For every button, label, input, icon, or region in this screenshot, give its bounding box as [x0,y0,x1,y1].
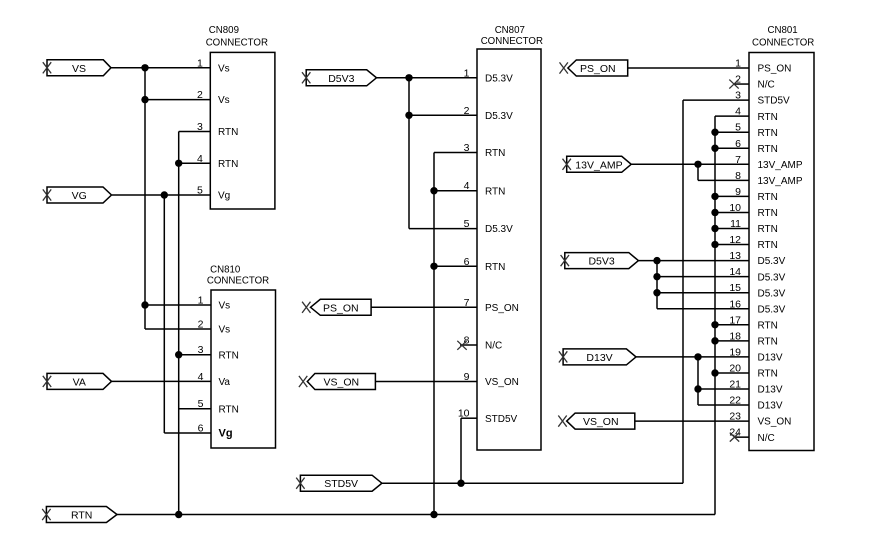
svg-text:CONNECTOR: CONNECTOR [752,38,814,49]
CN807 pin 8 (N/C) [464,335,503,352]
wire CN807 pin 10 stub [461,417,477,419]
connector CN807 box [477,25,543,450]
CN809 pin 1 (Vs) [197,57,230,74]
junction D5V3 bus at CN807 pin 1 [405,74,412,81]
net flag D5V3 left [302,70,377,86]
junction RTN bus at RTN rail [175,511,182,518]
CN807 pin 6 (RTN) [464,256,506,273]
junction RTN bus at CN801 pin 11 [711,225,718,232]
wire VS_ON to CN807 pin 9 [375,381,477,383]
CN807 pin 4 (RTN) [464,180,506,197]
wire D5V3 bus vertical right [656,261,658,309]
svg-text:PS_ON: PS_ON [485,303,519,314]
junction D13V bus at CN801 pin 21 [694,385,701,392]
CN801 pin 20 (RTN) [729,362,778,379]
svg-text:D13V: D13V [586,352,612,364]
svg-text:Vs: Vs [218,63,230,74]
CN801 pin 15 (D5.3V) [729,282,785,299]
junction VG bus tap [161,191,168,198]
wire D13V bus to CN801 pin 21 [698,388,749,390]
wire 13V_AMP to CN801 pin 7 [631,163,749,165]
wire VA to CN810 pin 4 [110,380,211,382]
junction RTN bus at CN801 pin 9 [711,193,718,200]
svg-text:RTN: RTN [758,192,778,203]
wire RTN bus to CN801 pin 17 [715,324,749,326]
wire STD5V rail horizontal [382,482,683,484]
svg-text:RTN: RTN [758,208,778,219]
svg-text:CONNECTOR: CONNECTOR [207,276,269,287]
svg-text:STD5V: STD5V [485,414,518,425]
svg-text:STD5V: STD5V [758,96,791,107]
wire RTN bus to CN809 pin 4 [179,162,211,164]
svg-text:D5.3V: D5.3V [758,272,786,283]
svg-text:D5.3V: D5.3V [758,288,786,299]
net flag RTN [42,507,117,523]
svg-text:RTN: RTN [485,148,505,159]
CN801 pin 10 (RTN) [729,202,778,219]
svg-text:D5.3V: D5.3V [485,111,513,122]
svg-text:CN810: CN810 [210,264,241,275]
svg-text:VS: VS [72,63,86,75]
svg-text:D5V3: D5V3 [588,256,614,268]
net flag D5V3 right [561,253,639,269]
svg-text:D5.3V: D5.3V [758,256,786,267]
svg-text:RTN: RTN [71,510,92,522]
wire VS bus to CN809 pin 2 [145,99,210,101]
wire RTN bus to CN807 pin 4 [434,190,477,192]
junction RTN bus at CN801 pin 20 [711,369,718,376]
CN807 pin 1 (D5.3V) [464,67,513,84]
no-connect X CN801 pin 24 [730,433,739,442]
CN807 pin 3 (RTN) [464,142,506,159]
junction RTN bus at CN809 pin 4 [175,160,182,167]
net flag VA [43,373,112,389]
CN807 pin 5 (D5.3V) [464,218,513,235]
net flag VS_ON left [299,374,376,390]
junction RTN bus at CN801 pin 10 [711,209,718,216]
svg-text:N/C: N/C [758,80,775,91]
svg-text:RTN: RTN [485,186,505,197]
svg-text:CN807: CN807 [495,25,525,36]
junction RTN bus at CN807 pin 6 [430,263,437,270]
wire VG bus to CN810 pin 6 [164,432,211,434]
net flag VS_ON right [558,413,635,429]
wire D5V3 to CN801 pin 13 [638,260,749,262]
wire RTN bus vertical middle [433,153,435,515]
CN809 pin 5 (Vg) [197,185,230,202]
wire CN801 pin 2 N/C stub [734,83,749,85]
wire PS_ON to CN807 pin 7 [371,306,477,308]
svg-text:RTN: RTN [758,369,778,380]
wire RTN rail horizontal [117,514,715,516]
CN801 pin 24 (N/C) [729,427,774,444]
svg-text:Va: Va [219,377,231,388]
wire RTN bus to CN801 pin 6 [715,147,749,149]
wire RTN bus to CN810 pin 3 [179,354,211,356]
wire D5V3 bus to CN801 pin 14 [657,276,749,278]
wire CN809 pin 3 stub [179,131,211,133]
CN810 pin 3 (RTN) [198,344,239,361]
svg-text:Vg: Vg [219,428,233,440]
junction D13V bus at CN801 pin 19 [694,353,701,360]
svg-text:RTN: RTN [758,128,778,139]
connector CN801 box [749,25,814,451]
junction RTN bus at CN801 pin 18 [711,337,718,344]
wire RTN bus to CN801 pin 5 [715,131,749,133]
junction VS bus at CN809 pin 2 [141,96,148,103]
wire 13V_AMP to CN801 pin 8 [698,179,749,181]
svg-text:RTN: RTN [758,240,778,251]
wire D5V3 bus to CN807 pin 5 [409,228,477,230]
wire RTN bus to CN801 pin 20 [715,372,749,374]
svg-text:RTN: RTN [219,350,239,361]
svg-text:Vs: Vs [219,325,231,336]
wire VS to CN809 pin 1 [111,67,210,69]
CN807 pin 9 (VS_ON) [464,371,519,388]
CN810 pin 4 (Va) [198,371,231,388]
wire D13V to CN801 pin 19 [636,356,749,358]
CN801 pin 18 (RTN) [729,330,778,347]
junction RTN bus at CN801 pin 6 [711,145,718,152]
svg-text:13V_AMP: 13V_AMP [575,159,622,171]
CN801 pin 17 (RTN) [729,314,778,331]
junction RTN bus at RTN rail middle [430,511,437,518]
svg-text:RTN: RTN [219,404,239,415]
svg-text:D13V: D13V [758,401,783,412]
svg-text:PS_ON: PS_ON [323,302,359,314]
wire RTN bus to CN801 pin 11 [715,228,749,230]
svg-text:VG: VG [72,190,87,202]
CN801 pin 3 (STD5V) [735,90,790,107]
svg-text:D5V3: D5V3 [328,73,354,85]
svg-text:D13V: D13V [758,385,783,396]
svg-text:VS_ON: VS_ON [758,417,792,428]
wire RTN bus to CN801 pin 18 [715,340,749,342]
CN801 pin 23 (VS_ON) [729,411,791,428]
CN809 pin 3 (RTN) [197,121,238,138]
CN807 pin 7 (PS_ON) [464,297,519,314]
svg-text:RTN: RTN [758,336,778,347]
junction RTN bus at CN801 pin 12 [711,241,718,248]
svg-text:RTN: RTN [758,224,778,235]
wire VS bus vertical [144,68,146,329]
svg-text:STD5V: STD5V [324,478,358,490]
junction STD5V rail at CN807 pin 10 drop [457,480,464,487]
svg-text:VS_ON: VS_ON [485,377,519,388]
wire CN801 pin 24 N/C stub [735,436,750,438]
net flag PS_ON right [560,60,628,76]
CN807 pin 2 (D5.3V) [464,105,513,122]
wire D13V bus vertical [697,357,699,405]
wire D5V3 bus vertical [408,78,410,229]
net flag VG [43,187,112,203]
svg-text:RTN: RTN [758,320,778,331]
svg-text:RTN: RTN [218,127,238,138]
CN801 pin 9 (RTN) [735,186,778,203]
wire RTN bus to CN801 pin 4 [715,115,749,117]
svg-text:Vs: Vs [219,301,231,312]
CN801 pin 16 (D5.3V) [729,298,785,315]
junction RTN bus at CN801 pin 17 [711,321,718,328]
net flag PS_ON left [302,299,371,315]
wire STD5V to CN801 pin 3 [683,99,749,101]
CN801 pin 22 (D13V) [729,395,783,412]
net flag 13V_AMP [563,156,632,172]
svg-text:CN809: CN809 [209,25,239,36]
junction VS bus at pin 1 [141,64,148,71]
CN810 pin 1 (Vs) [198,295,231,312]
svg-text:Vg: Vg [218,191,230,202]
wire RTN bus to CN801 pin 9 [715,195,749,197]
junction D5V3 bus at CN801 pin 14 [653,273,660,280]
wire CN807 pin 10 drop to STD5V rail [460,418,462,483]
junction VS bus at CN810 pin 1 [141,301,148,308]
svg-text:RTN: RTN [758,112,778,123]
junction D5V3 bus at CN801 pin 15 [653,289,660,296]
svg-text:D5.3V: D5.3V [485,73,513,84]
svg-text:PS_ON: PS_ON [758,64,792,75]
svg-text:VS_ON: VS_ON [324,377,360,389]
wire RTN bus to CN801 pin 10 [715,211,749,213]
svg-text:RTN: RTN [218,159,238,170]
wire VS bus to CN810 pin 2 [145,328,211,330]
svg-text:D5.3V: D5.3V [485,224,513,235]
CN801 pin 21 (D13V) [729,379,783,396]
CN810 pin 5 (RTN) [198,398,239,415]
svg-text:N/C: N/C [758,433,775,444]
svg-text:CONNECTOR: CONNECTOR [481,36,543,47]
svg-text:N/C: N/C [485,341,502,352]
CN801 pin 14 (D5.3V) [729,266,785,283]
wire D5V3 bus to CN801 pin 16 [657,308,749,310]
CN801 pin 13 (D5.3V) [729,250,785,267]
wire D5V3 bus to CN807 pin 2 [409,114,477,116]
CN801 pin 6 (RTN) [735,138,778,155]
wire RTN bus to CN801 pin 12 [715,244,749,246]
wire D5V3 bus to CN801 pin 15 [657,292,749,294]
CN809 pin 4 (RTN) [197,153,238,170]
junction RTN bus at CN801 pin 5 [711,129,718,136]
CN801 pin 5 (RTN) [735,122,778,139]
svg-text:13V_AMP: 13V_AMP [758,160,803,171]
wire D13V bus to CN801 pin 22 [698,404,749,406]
CN801 pin 1 (PS_ON) [735,58,791,75]
CN801 pin 12 (RTN) [729,234,778,251]
wire RTN bus vertical right [714,116,716,514]
wire VG to CN809 pin 5 [112,194,210,196]
junction RTN bus at CN810 pin 3 [175,351,182,358]
wire CN810 pin 5 stub [179,408,211,410]
CN801 pin 11 (RTN) [730,218,778,235]
wire VG bus vertical [163,195,165,433]
junction D5V3 bus at CN807 pin 2 [405,112,412,119]
junction D5V3 bus at CN801 pin 13 [653,257,660,264]
svg-text:VS_ON: VS_ON [583,416,619,428]
junction RTN bus at CN807 pin 4 [430,187,437,194]
svg-text:D13V: D13V [758,353,783,364]
wire RTN bus to CN807 pin 6 [434,265,477,267]
wire D5V3 to CN807 pin 1 [377,77,478,79]
wire PS_ON to CN801 pin 1 [628,67,749,69]
CN801 pin 8 (13V_AMP) [735,170,803,187]
connector CN809 box [206,25,275,209]
CN801 pin 19 (D13V) [729,346,783,363]
CN801 pin 4 (RTN) [735,106,778,123]
connector CN810 box [207,264,276,448]
CN801 pin 2 (N/C) [735,74,775,91]
wire VS bus to CN810 pin 1 [145,304,211,306]
svg-text:PS_ON: PS_ON [580,63,616,75]
svg-text:RTN: RTN [758,144,778,155]
no-connect X CN807 pin 8 [457,341,466,350]
wire STD5V rail riser [682,100,684,483]
CN810 pin 6 (Vg) [198,423,233,440]
svg-text:CN801: CN801 [768,25,798,36]
CN807 pin 10 (STD5V) [458,408,518,425]
CN809 pin 2 (Vs) [197,89,230,106]
net flag VS [43,60,111,76]
svg-text:CONNECTOR: CONNECTOR [206,38,268,49]
svg-text:D5.3V: D5.3V [758,304,786,315]
net flag STD5V [296,475,382,491]
svg-text:13V_AMP: 13V_AMP [758,176,803,187]
svg-text:VA: VA [73,376,86,388]
wire RTN bus vertical left [178,132,180,515]
wire CN807 pin 3 stub [434,152,477,154]
wire CN807 pin 8 N/C stub [460,344,477,346]
net flag D13V [559,349,636,365]
CN810 pin 2 (Vs) [198,319,231,336]
CN801 pin 7 (13V_AMP) [735,154,803,171]
svg-text:Vs: Vs [218,95,230,106]
svg-text:RTN: RTN [485,262,505,273]
junction 13V_AMP tap [694,161,701,168]
wire 13V_AMP drop [697,164,699,180]
no-connect X CN801 pin 2 [729,80,738,89]
wire VS_ON to CN801 pin 23 [635,420,749,422]
